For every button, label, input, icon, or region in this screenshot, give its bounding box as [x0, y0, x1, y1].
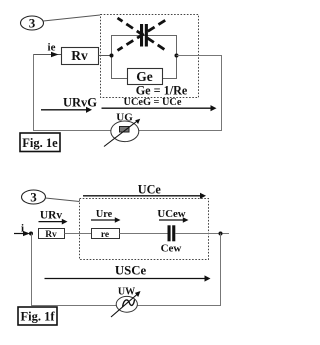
label URv with arrow [39, 210, 68, 225]
svg-text:Fig. 1f: Fig. 1f [20, 310, 55, 324]
wire right vertical (Fig. 1f) [220, 234, 222, 307]
node input junction [29, 232, 33, 236]
wire ie into Rv with current arrow [33, 54, 62, 56]
label URvG with arrow [41, 96, 97, 113]
resistor re [92, 229, 120, 241]
svg-text:Rv: Rv [45, 230, 57, 240]
capacitor Cew [168, 225, 176, 241]
svg-text:URvG: URvG [63, 96, 97, 110]
balloon 3 (Fig. 1f) [22, 190, 46, 205]
label UCew with arrow [157, 208, 188, 223]
wire bottom horizontal (Fig. 1f) [32, 305, 222, 307]
AC source UW [111, 287, 141, 318]
svg-text:UCe: UCe [138, 183, 162, 197]
svg-text:3: 3 [30, 190, 37, 205]
Fig. 1f caption box [18, 307, 57, 325]
node left junction [110, 54, 114, 58]
leader line from balloon 3 to dashed box (Fig. 1f) [45, 198, 79, 202]
dashed X cross-out line 1 [118, 18, 168, 51]
label i with arrow [14, 223, 30, 237]
label UCe with arrow [83, 183, 206, 199]
node output junction [219, 232, 223, 236]
wire left vertical (Fig. 1f) [31, 234, 33, 307]
label USCe with arrow [45, 264, 211, 282]
svg-text:Cew: Cew [161, 243, 182, 255]
wire node to right vertical [177, 55, 223, 57]
svg-text:URv: URv [40, 210, 63, 222]
wire Rv to node [99, 55, 112, 57]
svg-text:Fig. 1e: Fig. 1e [22, 136, 58, 150]
parallel branch rectangle [112, 36, 177, 79]
dashed X cross-out line 2 [118, 19, 168, 50]
dashed box re/Cew network [80, 199, 209, 260]
wire left vertical (Fig. 1e) [33, 54, 35, 131]
resistor Rv (Fig. 1f) [39, 229, 65, 241]
wire Rv to re [65, 233, 92, 235]
svg-text:Ge = 1/Re: Ge = 1/Re [136, 84, 188, 98]
dashed box Ge network [101, 15, 199, 98]
svg-text:UCeG = UCe: UCeG = UCe [124, 97, 182, 108]
wire right vertical (Fig. 1e) [221, 55, 223, 131]
svg-text:3: 3 [29, 16, 36, 31]
svg-text:ie: ie [48, 42, 56, 54]
svg-text:Ge: Ge [136, 69, 153, 84]
svg-text:re: re [101, 230, 109, 240]
Fig. 1e caption box [20, 133, 60, 152]
label UCeG = UCe with arrow [102, 97, 217, 111]
svg-text:Ure: Ure [96, 209, 113, 220]
wire re to Cew [120, 233, 168, 235]
wire bottom horizontal (Fig. 1e) [33, 130, 222, 132]
capacitor (crossed out) [140, 24, 148, 47]
voltage source UG [104, 112, 140, 147]
svg-text:Rv: Rv [71, 48, 88, 63]
leader line from balloon 3 to dashed box [43, 15, 100, 21]
balloon 3 (Fig. 1e) [21, 16, 44, 31]
conductance Ge box [128, 69, 163, 85]
resistor Rv (Fig. 1e) [62, 48, 99, 65]
svg-text:USCe: USCe [115, 264, 147, 278]
wire Cew to output stub [175, 233, 229, 235]
svg-text:UW: UW [118, 287, 135, 298]
label Ure with arrow [91, 209, 121, 223]
node right junction [175, 54, 179, 58]
svg-text:UCew: UCew [157, 208, 185, 220]
